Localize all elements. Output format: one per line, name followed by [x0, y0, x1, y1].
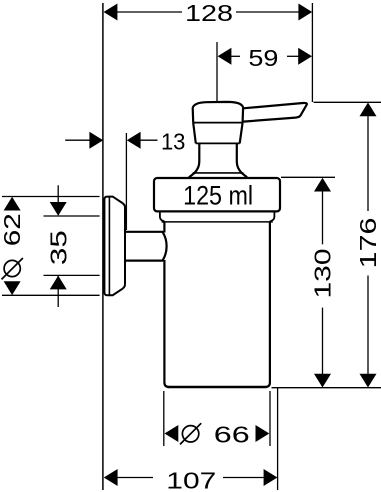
dimension 128 [116, 11, 300, 13]
diameter symbol of 62 [4, 260, 20, 276]
extension line spout tip vertical [311, 3, 313, 102]
extension line 35 top [44, 215, 100, 217]
pump neck [196, 143, 240, 161]
svg-text:62: 62 [0, 213, 25, 246]
container bottom edge [168, 386, 267, 388]
dimension 130 [322, 188, 324, 376]
plate bead contour line [108, 197, 110, 295]
extension line spout tip horizontal for 176 top [314, 101, 381, 103]
extension line pump center for 59 [216, 42, 218, 101]
neck band [160, 213, 275, 222]
extension line diameter 62 top [2, 196, 100, 198]
svg-text:59: 59 [248, 45, 278, 71]
pump spout lever [243, 103, 307, 123]
extension line diameter 66 right [269, 391, 271, 446]
svg-text:107: 107 [166, 467, 216, 492]
extension line diameter 62 bottom [2, 294, 100, 296]
diameter symbol of 66 [182, 426, 198, 442]
collar with 125 ml label [154, 178, 280, 211]
holder arm [126, 232, 167, 261]
dimension diameter 66 [165, 425, 179, 442]
pump bell skirt [189, 162, 247, 178]
dimension 13 [65, 139, 157, 141]
svg-text:125 ml: 125 ml [183, 181, 253, 211]
cap sides [192, 108, 195, 123]
extension line plate front for 13 [125, 133, 127, 230]
wall line [102, 3, 104, 490]
svg-text:128: 128 [185, 0, 233, 26]
extension line container bottom for 130 and 176 [272, 387, 381, 389]
bell contour line [193, 172, 244, 174]
pump body [193, 102, 243, 143]
dimension diameter 62 [4, 197, 21, 211]
svg-text:176: 176 [355, 218, 381, 269]
extension line container top for 130 top [281, 176, 335, 178]
extension line diameter 66 left [163, 391, 165, 446]
svg-text:13: 13 [161, 128, 186, 154]
neck top step line [196, 142, 240, 144]
dimension 107 [116, 477, 265, 479]
spout bottom junction [242, 122, 245, 123]
container right edge [265, 222, 270, 387]
svg-text:66: 66 [214, 422, 250, 448]
wall plate (escutcheon side view) [104, 197, 125, 296]
dimension 176 [367, 113, 369, 376]
container left edge lower [164, 260, 169, 387]
container left edge upper [163, 222, 165, 233]
extension line 107 right [277, 387, 279, 490]
body taper sides [193, 123, 196, 144]
container body (125 ml bottle) [160, 213, 275, 388]
cap dome top [193, 102, 243, 108]
svg-text:130: 130 [309, 249, 335, 299]
body mid line [193, 122, 242, 124]
dimension 35 [57, 185, 59, 307]
svg-text:35: 35 [45, 230, 71, 265]
extension line 35 bottom [44, 274, 100, 276]
dimension 59 [230, 55, 299, 57]
neck band bottom line [162, 221, 273, 223]
